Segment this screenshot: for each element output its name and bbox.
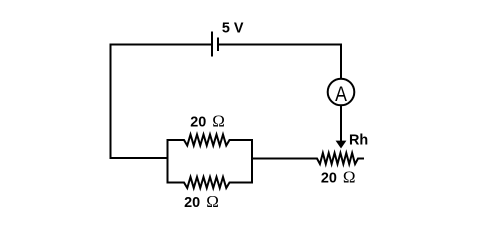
- svg-text:5 V: 5 V: [222, 21, 244, 37]
- svg-text:20 Ω: 20 Ω: [321, 167, 356, 186]
- svg-text:20 Ω: 20 Ω: [190, 111, 225, 130]
- svg-text:Rh: Rh: [349, 133, 368, 149]
- svg-text:20 Ω: 20 Ω: [184, 192, 219, 211]
- svg-text:A: A: [335, 83, 347, 106]
